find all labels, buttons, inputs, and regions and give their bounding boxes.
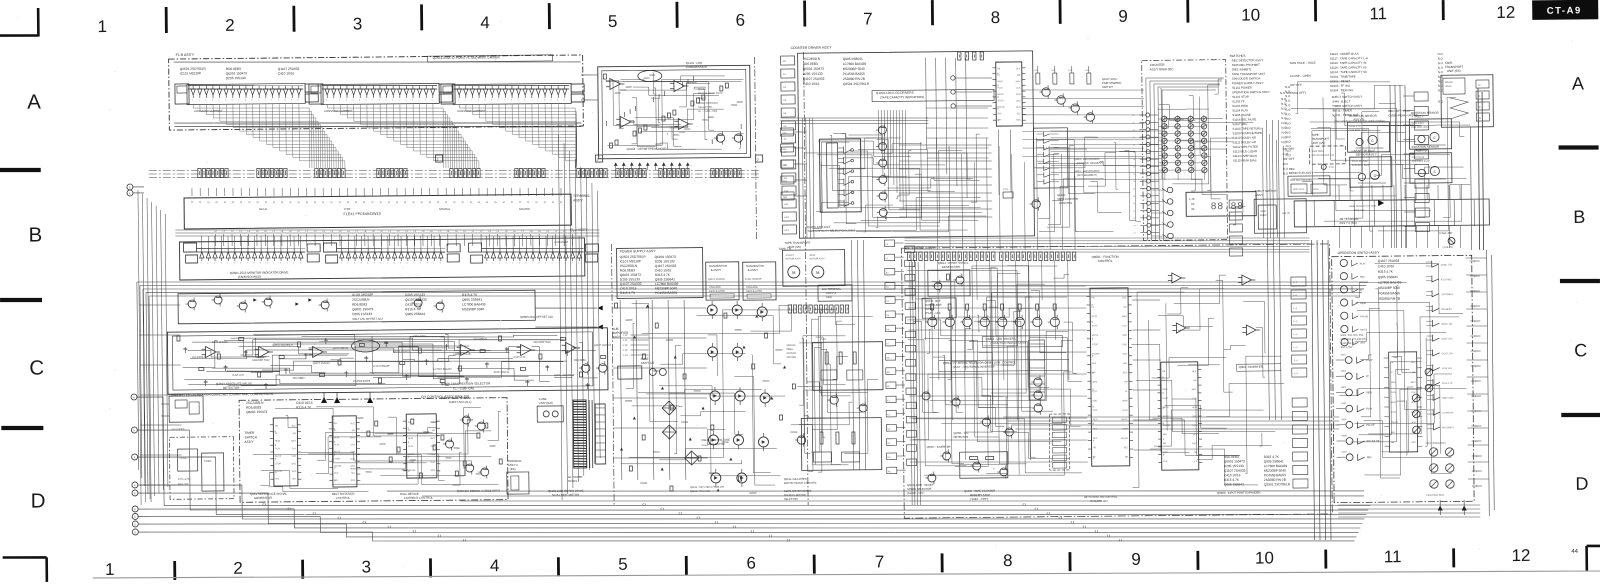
svg-text:LC315: LC315 (1397, 400, 1405, 403)
svg-text:1L,---(1dB--ON): 1L,---(1dB--ON) (453, 386, 474, 390)
svg-text:10: 10 (1241, 5, 1260, 24)
svg-text:TRANS: TRANS (568, 479, 577, 483)
svg-text:TIME SHARING: TIME SHARING (1102, 81, 1121, 85)
svg-text:6: 6 (735, 11, 745, 30)
svg-text:E: E (134, 483, 136, 487)
svg-text:UNIT (4/5): UNIT (4/5) (1312, 141, 1326, 145)
svg-text:COUNTER DRIVER ASS'Y: COUNTER DRIVER ASS'Y (791, 46, 833, 50)
svg-text:❮❯: ❮❯ (660, 507, 664, 510)
svg-text:PAUSE: PAUSE (1163, 424, 1171, 427)
svg-text:Q6130 : TAPE COUNTER: Q6130 : TAPE COUNTER (964, 489, 995, 493)
svg-text:N.O: N.O (1281, 97, 1287, 101)
svg-text:N.O: N.O (1438, 61, 1444, 65)
svg-text:PLAY: PLAY (1163, 397, 1169, 400)
svg-text:SELECTOR: SELECTOR (698, 105, 712, 109)
svg-text:MUTE: MUTE (1092, 335, 1099, 337)
svg-text:M5230BP 5040: M5230BP 5040 (1264, 469, 1286, 473)
svg-text:Q6010 : BLE: Q6010 : BLE (925, 299, 941, 303)
svg-text:S945 REC PROHIBIT: S945 REC PROHIBIT (1232, 63, 1260, 67)
svg-text:& ASS'Y: & ASS'Y (748, 268, 759, 272)
svg-text:M: M (792, 270, 795, 275)
svg-text:BLE: BLE (275, 478, 280, 480)
svg-text:MEMORY STOP: MEMORY STOP (970, 493, 990, 497)
svg-text:N.O: N.O (1281, 121, 1287, 125)
svg-text:D: D (31, 489, 46, 512)
svg-text:❮❯: ❮❯ (1082, 525, 1086, 528)
svg-text:C410 10/16: C410 10/16 (1224, 473, 1241, 477)
svg-text:M: M (453, 202, 455, 204)
svg-text:R315 4.7K: R315 4.7K (462, 293, 478, 297)
svg-text:PAUSE: PAUSE (408, 469, 416, 472)
svg-text:M: M (207, 202, 209, 204)
svg-text:ASS'Y 4: ASS'Y 4 (826, 291, 836, 295)
svg-text:4: 4 (293, 262, 294, 264)
svg-text:11: 11 (1384, 547, 1402, 566)
svg-text:ASS'Y RWW-30C: ASS'Y RWW-30C (1150, 67, 1174, 71)
svg-text:SEG: SEG (1192, 425, 1197, 427)
svg-text:2SC2458LN: 2SC2458LN (1441, 294, 1453, 296)
svg-text:5: 5 (618, 555, 628, 574)
svg-text:3: 3 (478, 100, 479, 102)
svg-text:M5230BP 5040: M5230BP 5040 (462, 307, 484, 311)
svg-text:Q2501 2SD786LR: Q2501 2SD786LR (843, 82, 870, 86)
svg-text:PLAY: PLAY (820, 338, 826, 341)
svg-text:NR: NR (1163, 443, 1167, 445)
svg-text:M: M (298, 202, 300, 204)
svg-text:6: 6 (432, 99, 433, 101)
svg-text:ON−OFF: ON−OFF (1290, 83, 1302, 87)
svg-text:8: 8 (1003, 551, 1013, 570)
svg-text:NR: NR (1193, 380, 1197, 382)
svg-text:0: 0 (192, 99, 193, 101)
svg-text:M: M (339, 202, 341, 204)
svg-text:M: M (429, 202, 431, 204)
svg-text:OSC: OSC (291, 463, 296, 465)
svg-text:GENERATOR: GENERATOR (254, 496, 272, 500)
svg-text:60: 60 (1191, 202, 1195, 206)
svg-text:1: 1 (333, 99, 334, 101)
svg-text:M: M (265, 202, 267, 204)
svg-text:CONSTANT CURRENT: CONSTANT CURRENT (194, 109, 223, 113)
svg-text:N.O: N.O (1438, 52, 1444, 56)
svg-text:S943 REEL: S943 REEL (1312, 150, 1325, 153)
svg-text:7: 7 (247, 263, 248, 265)
svg-text:N.O: N.O (1281, 111, 1287, 115)
svg-text:5: 5 (557, 100, 558, 102)
svg-text:VDD: VDD (1016, 94, 1021, 96)
svg-text:M: M (478, 202, 480, 204)
svg-text:IC101 M5218P: IC101 M5218P (180, 71, 201, 75)
svg-text:3: 3 (286, 263, 287, 265)
svg-text:Q1107 2SA933: Q1107 2SA933 (803, 77, 825, 81)
svg-text:S910,911,912,: S910,911,912, (1341, 342, 1357, 345)
svg-text:BLE: BLE (334, 473, 339, 475)
svg-text:Q1107 2SA933: Q1107 2SA933 (1378, 259, 1400, 263)
svg-text:M: M (306, 202, 308, 204)
svg-text:4: 4 (352, 99, 353, 101)
svg-text:C410 10/16: C410 10/16 (1411, 122, 1424, 125)
svg-text:Q905 2SB641: Q905 2SB641 (405, 312, 425, 316)
svg-text:(—(: (—( (1293, 281, 1297, 284)
svg-text:Q1107 2SA933: Q1107 2SA933 (313, 362, 331, 365)
svg-text:PLAY: PLAY (1391, 391, 1397, 394)
svg-text:N.O: N.O (1281, 107, 1287, 111)
svg-text:IC CLOCK ADJ: IC CLOCK ADJ (1090, 499, 1108, 503)
svg-text:10K TERMINAL: 10K TERMINAL (822, 287, 842, 291)
svg-text:M: M (355, 202, 357, 204)
svg-text:SEG: SEG (351, 466, 356, 468)
svg-text:X'TAL: X'TAL (1003, 188, 1010, 191)
svg-text:Q903 : INVERTER: Q903 : INVERTER (1239, 365, 1263, 369)
svg-text:8: 8 (379, 99, 380, 101)
svg-text:M: M (380, 202, 382, 204)
svg-text:RET: RET (1361, 342, 1366, 345)
svg-text:❮❯: ❮❯ (768, 534, 772, 537)
svg-text:R315 4.7K: R315 4.7K (514, 356, 526, 359)
svg-text:E: E (134, 522, 136, 526)
svg-text:12: 12 (1511, 546, 1530, 565)
svg-text:SOURCE: SOURCE (519, 207, 530, 211)
svg-text:M: M (404, 202, 406, 204)
svg-text:RD6.8EB3: RD6.8EB3 (226, 67, 241, 71)
svg-text:C410 10/16: C410 10/16 (1378, 264, 1395, 268)
svg-text:Q1107 2SA933: Q1107 2SA933 (594, 344, 612, 347)
svg-text:Q1107 2SA933: Q1107 2SA933 (708, 278, 726, 281)
svg-text:FL B ASS'Y: FL B ASS'Y (176, 53, 195, 57)
svg-text:N.O NORMAL OFF): N.O NORMAL OFF) (1280, 91, 1306, 95)
svg-text:PC4558 BA555: PC4558 BA555 (655, 291, 677, 295)
svg-text:MPX: MPX (1411, 382, 1416, 384)
svg-text:MOTOR ASSY: MOTOR ASSY (810, 257, 826, 260)
svg-text:Q1107 2SA933: Q1107 2SA933 (405, 298, 427, 302)
svg-text:SEG: SEG (431, 470, 436, 472)
svg-text:CONTROL: CONTROL (1098, 259, 1113, 263)
svg-text:BLE: BLE (1192, 371, 1197, 373)
svg-text:CrO2: CrO2 (344, 207, 351, 211)
svg-text:Q6001 150: Q6001 150 (1441, 324, 1453, 326)
svg-text:S902: S902 (1341, 371, 1347, 373)
svg-text:6: 6 (366, 100, 367, 102)
svg-text:0: 0 (201, 262, 202, 264)
svg-text:VDD: VDD (291, 456, 296, 458)
svg-text:MOTOR ASSY: MOTOR ASSY (786, 257, 802, 260)
svg-text:❮❯: ❮❯ (262, 503, 266, 506)
svg-text:S905: S905 (1341, 419, 1347, 421)
svg-text:M: M (396, 202, 398, 204)
svg-text:S1901 : TIME/TAPE: S1901 : TIME/TAPE (1330, 75, 1356, 79)
svg-text:M: M (273, 202, 275, 204)
svg-text:E: E (133, 428, 135, 432)
svg-text:4: 4 (227, 263, 228, 265)
svg-text:PAUSE: PAUSE (1121, 437, 1129, 440)
svg-text:CH CONTROL ASS'Y RWX-150: CH CONTROL ASS'Y RWX-150 (421, 395, 469, 399)
svg-text:1: 1 (347, 263, 348, 265)
svg-text:M: M (191, 202, 193, 204)
svg-text:M: M (816, 270, 819, 275)
svg-text:M: M (462, 202, 464, 204)
svg-text:4: 4 (512, 262, 513, 264)
svg-text:VDD: VDD (1192, 407, 1197, 409)
svg-text:DETECTOR: DETECTOR (953, 435, 968, 439)
svg-text:SELECTOR: SELECTOR (784, 497, 798, 501)
svg-text:NR: NR (1124, 307, 1128, 309)
svg-text:2SD880 RN-2B: 2SD880 RN-2B (453, 353, 471, 356)
svg-text:5: 5 (519, 263, 520, 265)
svg-text:❮❯: ❮❯ (750, 530, 754, 533)
svg-text:R315 4.7K: R315 4.7K (1442, 383, 1453, 385)
svg-text:M: M (232, 202, 234, 204)
svg-text:❮❯: ❮❯ (1034, 507, 1038, 510)
svg-text:0: 0 (341, 262, 342, 264)
svg-text:Q6903 : INPUT PORT EXPANDER: Q6903 : INPUT PORT EXPANDER (1217, 491, 1261, 495)
svg-text:(PLAY→ON) SIGNA: (PLAY→ON) SIGNAL INVERTER (953, 365, 995, 369)
svg-text:NR: NR (1391, 442, 1395, 444)
svg-text:9: 9 (1118, 7, 1128, 26)
svg-text:COUNTER: COUNTER (1150, 63, 1166, 67)
svg-text:D205 1SS133: D205 1SS133 (1224, 464, 1244, 468)
svg-text:N.O: N.O (1281, 116, 1287, 120)
svg-text:PUSH: PUSH (180, 457, 187, 460)
svg-text:J4: J4 (1133, 233, 1135, 235)
svg-text:SENSOR ASS'Y: SENSOR ASS'Y (1356, 152, 1377, 156)
svg-text:Q905 2SB641: Q905 2SB641 (1264, 459, 1284, 463)
svg-text:ASS'Y: ASS'Y (612, 335, 621, 339)
svg-text:MPX: MPX (291, 441, 296, 443)
svg-text:(REC INHIBIT): (REC INHIBIT) (1232, 67, 1251, 71)
svg-text:6: 6 (498, 100, 499, 102)
svg-text:REW: REW (1366, 391, 1373, 394)
svg-text:Q1131 : MUY-088 or RGM-200: Q1131 : MUY-088 or RGM-200 (690, 486, 725, 489)
svg-text:7: 7 (387, 263, 388, 265)
svg-text:R315 4.7K: R315 4.7K (1264, 455, 1280, 459)
svg-text:OSC: OSC (350, 459, 355, 461)
svg-text:J 12: J 12 (623, 343, 628, 347)
svg-text:❮❯: ❮❯ (312, 512, 316, 515)
svg-text:❮❯: ❮❯ (1046, 512, 1050, 515)
svg-text:M: M (511, 202, 513, 204)
svg-text:S1904 : REW WG: S1904 : REW WG (1330, 88, 1354, 92)
svg-text:B: B (28, 223, 42, 246)
svg-text:9: 9 (517, 100, 518, 102)
svg-text:❮❯: ❮❯ (786, 539, 790, 542)
svg-text:NON HOLE→HOLE: NON HOLE→HOLE (1290, 61, 1316, 65)
svg-text:1: 1 (97, 17, 107, 36)
svg-text:BLE: BLE (1016, 68, 1021, 70)
svg-text:90: 90 (1191, 207, 1195, 211)
svg-text:(FUNCTION INDICATORS): (FUNCTION INDICATORS) (991, 341, 1026, 345)
svg-text:0: 0 (267, 263, 268, 265)
svg-text:(SUB 2B): (SUB 2B) (1443, 246, 1453, 249)
svg-text:RD6.8EB3: RD6.8EB3 (1441, 309, 1452, 311)
svg-text:METAL: METAL (259, 207, 268, 211)
svg-text:RD6.8EB3: RD6.8EB3 (246, 405, 261, 409)
svg-text:4: 4 (418, 99, 419, 101)
svg-text:9: 9 (1131, 550, 1141, 569)
svg-text:OPERATION SWITCH ASS'Y: OPERATION SWITCH ASS'Y (1338, 251, 1381, 255)
svg-text:VDD: VDD (1122, 335, 1127, 337)
svg-text:3: 3 (278, 100, 279, 102)
svg-text:A10: A10 (784, 190, 789, 193)
svg-text:M: M (388, 202, 390, 204)
svg-text:NR: NR (1017, 75, 1021, 77)
svg-text:8: 8 (253, 262, 254, 264)
svg-text:❮❯: ❮❯ (437, 534, 441, 537)
svg-text:J 10: J 10 (622, 333, 627, 337)
svg-text:OSC: OSC (1016, 100, 1021, 102)
svg-text:BLE: BLE (1124, 447, 1129, 449)
svg-text:7: 7 (504, 100, 505, 102)
svg-text:M: M (330, 202, 332, 204)
svg-text:S1106 REC MUTE: S1106 REC MUTE (1232, 117, 1256, 121)
svg-text:9: 9 (251, 99, 252, 101)
svg-text:C410 10/16: C410 10/16 (405, 302, 422, 306)
svg-text:S1103 : UNDER BI AS: S1103 : UNDER BI AS (1330, 52, 1359, 56)
svg-text:8: 8 (245, 100, 246, 102)
svg-text:C410 10/1: C410 10/1 (1442, 368, 1453, 370)
svg-text:ON−OFF: ON−OFF (1283, 147, 1295, 151)
svg-text:9: 9 (385, 100, 386, 102)
svg-text:6: 6 (240, 262, 241, 264)
svg-text:CLK: CLK (292, 448, 297, 450)
svg-text:REEL: REEL (787, 348, 794, 351)
svg-text:BLE: BLE (1122, 297, 1127, 299)
svg-text:OSC: OSC (1411, 412, 1416, 414)
svg-text:0: 0 (258, 99, 259, 101)
svg-text:SS71-,992 :: SS71-,992 : (1341, 346, 1355, 349)
svg-text:1: 1 (105, 560, 115, 579)
svg-text:NR: NR (1092, 372, 1096, 374)
svg-text:COMPRESSION: COMPRESSION (698, 101, 718, 105)
svg-text:C410 10/16: C410 10/16 (296, 401, 313, 405)
svg-text:VOLTAGE: VOLTAGE (709, 285, 721, 289)
svg-text:R315 4.7K: R315 4.7K (405, 307, 421, 311)
svg-text:PAUSE: PAUSE (275, 470, 283, 473)
svg-text:NR: NR (352, 430, 356, 432)
svg-text:(TAPE CAPACITY INDICATORS): (TAPE CAPACITY INDICATORS) (880, 95, 924, 99)
svg-text:HEAD: HEAD (1445, 85, 1452, 88)
svg-text:5: 5 (374, 262, 375, 264)
svg-text:M: M (347, 202, 349, 204)
svg-text:9: 9 (400, 262, 401, 264)
svg-text:D205 1SS1: D205 1SS1 (1442, 338, 1454, 340)
svg-text:ON−OFF: ON−OFF (1283, 157, 1295, 161)
svg-text:C410 10/16: C410 10/16 (278, 71, 295, 75)
svg-text:RD6.8EB3: RD6.8EB3 (293, 377, 305, 380)
svg-text:S771-S752: S771-S752 (178, 478, 191, 481)
svg-text:Q1115 : LED DRIVERS: Q1115 : LED DRIVERS (1074, 158, 1100, 161)
svg-text:IC101 M52: IC101 M52 (1441, 279, 1453, 281)
svg-text:7: 7 (863, 9, 873, 28)
svg-text:M5230BP 5: M5230BP 5 (1442, 427, 1454, 429)
svg-text:4: 4 (284, 100, 285, 102)
svg-text:M: M (527, 202, 529, 204)
svg-text:ASS'Y B: ASS'Y B (1353, 117, 1364, 121)
svg-text:E: E (129, 191, 131, 195)
svg-text:REC/MUTE: REC/MUTE (1367, 440, 1380, 443)
svg-text:❮❯: ❮❯ (1118, 539, 1122, 542)
svg-text:BLE: BLE (1163, 434, 1168, 436)
svg-text:0: 0 (524, 100, 525, 102)
svg-text:2SC2458LN: 2SC2458LN (352, 298, 370, 302)
svg-text:❮❯: ❮❯ (1106, 534, 1110, 537)
svg-text:2: 2 (280, 262, 281, 264)
svg-text:BLE: BLE (292, 426, 297, 428)
svg-text:LC7800 BA6439: LC7800 BA6439 (843, 62, 867, 66)
svg-text:S1102 FF: S1102 FF (1232, 99, 1245, 103)
svg-text:N.O: N.O (1438, 70, 1444, 74)
svg-text:Q1107 2SA: Q1107 2SA (1442, 352, 1454, 355)
svg-text:D205 1SS133: D205 1SS133 (405, 293, 425, 297)
svg-text:D: D (1575, 474, 1588, 494)
svg-text:BLE: BLE (351, 423, 356, 425)
svg-text:SWITCHES: SWITCHES (1230, 54, 1246, 58)
svg-text:2SC2458LN: 2SC2458LN (246, 401, 264, 405)
svg-text:S1103 REW: S1103 REW (1232, 104, 1248, 108)
svg-text:1: 1 (465, 100, 466, 102)
svg-text:CLK: CLK (1163, 461, 1168, 463)
svg-text:REC: REC (351, 480, 356, 482)
svg-text:Q1141,1142 ASSIST: Q1141,1142 ASSIST (784, 477, 808, 481)
svg-text:VDD: VDD (1411, 402, 1416, 404)
svg-text:REC: REC (1093, 438, 1098, 440)
svg-text:MPX: MPX (1016, 81, 1021, 83)
svg-text:0: 0 (458, 99, 459, 101)
svg-text:4: 4 (480, 13, 490, 32)
svg-text:J4: J4 (1133, 166, 1135, 168)
svg-text:MUTE: MUTE (998, 94, 1005, 96)
svg-text:REEL: REEL (810, 255, 817, 257)
svg-text:6: 6 (564, 100, 565, 102)
svg-text:Q2501 2SD786LR: Q2501 2SD786LR (1264, 482, 1291, 486)
svg-text:CLK: CLK (1093, 391, 1098, 393)
svg-text:J4: J4 (1133, 159, 1135, 161)
svg-text:CLK: CLK (351, 444, 356, 446)
svg-text:N.O: N.O (1438, 66, 1444, 70)
svg-text:2SD880 RN-2B: 2SD880 RN-2B (843, 77, 865, 81)
svg-text:0: 0 (486, 263, 487, 265)
svg-text:M5230BP 5040: M5230BP 5040 (843, 67, 865, 71)
svg-text:12: 12 (1496, 3, 1515, 22)
svg-text:M: M (412, 202, 414, 204)
svg-text:Q1132 : RGA-022: Q1132 : RGA-022 (690, 490, 710, 493)
svg-text:DETECTOR ASS'Y: DETECTOR ASS'Y (1289, 171, 1314, 175)
svg-text:SWITCH: SWITCH (244, 435, 257, 439)
svg-text:8: 8 (511, 99, 512, 101)
svg-text:J 11: J 11 (622, 338, 627, 342)
svg-text:4: 4 (578, 263, 579, 265)
svg-text:(—(: (—( (1294, 359, 1298, 362)
svg-text:3: 3 (412, 99, 413, 101)
svg-text:LC7800 BA6439: LC7800 BA6439 (462, 302, 486, 306)
svg-text:Q6001 150473: Q6001 150473 (1224, 459, 1245, 463)
svg-text:IC101 M5218P: IC101 M5218P (745, 278, 762, 281)
svg-text:5: 5 (300, 262, 301, 264)
svg-text:❮❯: ❮❯ (462, 539, 466, 542)
svg-text:OPERATION SWITCH ASS'Y: OPERATION SWITCH ASS'Y (1232, 90, 1270, 94)
svg-text:(—(: (—( (1293, 333, 1297, 336)
svg-text:SPEED SELECTOR: SPEED SELECTOR (907, 487, 931, 491)
svg-text:7: 7 (875, 552, 885, 571)
svg-text:Q2501 2SD786LR: Q2501 2SD786LR (180, 67, 207, 71)
svg-text:S1131 POWER: S1131 POWER (1232, 86, 1252, 90)
svg-text:M: M (421, 202, 423, 204)
svg-text:M: M (199, 202, 201, 204)
svg-text:(—(: (—( (1294, 346, 1298, 349)
svg-text:ASS'Y: ASS'Y (1415, 114, 1423, 118)
svg-text:7: 7 (532, 262, 533, 264)
svg-text:1: 1 (492, 262, 493, 264)
svg-text:4: 4 (484, 100, 485, 102)
